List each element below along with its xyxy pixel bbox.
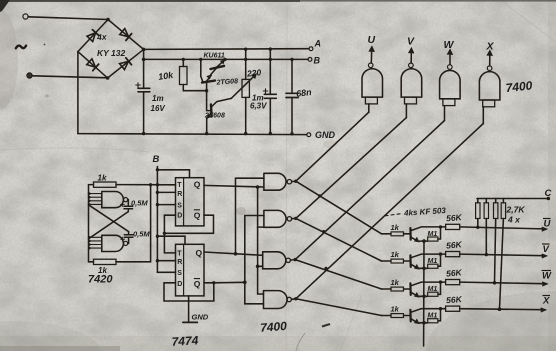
svg-text:2,7K: 2,7K	[506, 205, 526, 215]
capacitor C2 1m 6.3V	[269, 47, 272, 50]
wire B to FF1 top pin	[157, 170, 189, 178]
svg-text:56K: 56K	[446, 239, 463, 250]
svg-text:7420: 7420	[88, 274, 113, 286]
wire AC1 to bridge top	[28, 17, 108, 20]
wire Q2bar to vertical bus	[214, 281, 245, 284]
svg-text:56K: 56K	[446, 212, 463, 223]
svg-text:GND: GND	[192, 313, 209, 322]
flip-flop U2B 7474 box	[176, 244, 205, 296]
wire Q1bar node to T2	[164, 233, 175, 253]
top scan edge	[0, 0, 556, 2]
svg-text:M1: M1	[428, 313, 438, 320]
diagonal G2 out to stage 2	[296, 218, 382, 261]
wire Q2 branch to gate1 top	[236, 178, 264, 254]
GND end circle	[307, 133, 311, 137]
wire Q1 to gate1 bottom	[204, 185, 264, 187]
FF pin letters	[177, 182, 182, 288]
svg-text:X: X	[542, 296, 550, 307]
svg-text:V: V	[407, 36, 415, 48]
bottom-left dark edge	[0, 346, 120, 351]
svg-text:KY 132: KY 132	[97, 48, 125, 58]
wire AC2 to bridge bottom	[32, 76, 107, 78]
dash leader for KF503	[385, 214, 400, 216]
rail A	[144, 48, 309, 51]
common emitter ground line	[423, 241, 425, 346]
wire rail B to Q2 collector	[199, 58, 202, 61]
svg-text:Q: Q	[196, 248, 203, 258]
FF2 ground stub	[188, 296, 190, 323]
wire Q2 to gate3 top	[204, 252, 263, 255]
potentiometer P1 220	[244, 48, 247, 51]
svg-text:T: T	[177, 182, 182, 189]
diagonal G3 out to gate W	[295, 121, 444, 260]
wire 1k top left to gate1 input rail	[89, 185, 94, 193]
resistor R8 2,7K	[500, 199, 504, 310]
svg-text:B: B	[314, 56, 321, 66]
svg-text:D: D	[177, 213, 182, 220]
AC terminal 2	[27, 73, 32, 78]
transistor stage T2	[382, 252, 548, 271]
bus Q2bar vertical to gate2 top	[245, 216, 264, 304]
gate U	[362, 46, 383, 112]
node bridge bottom	[106, 76, 110, 80]
wire 1k bottom right to join line	[116, 185, 151, 262]
diode D3 bottom-left	[86, 58, 98, 70]
svg-text:7474: 7474	[171, 333, 199, 348]
nand gate G3	[263, 252, 286, 269]
svg-text:W: W	[444, 39, 455, 51]
overlines for U V W X bar	[542, 219, 552, 296]
wire Q1bar loop to D1	[164, 215, 213, 233]
bridge rectifier diamond KY132	[78, 20, 144, 79]
svg-text:U: U	[544, 219, 552, 230]
rail B end circle	[308, 58, 312, 62]
resistor R7 2,7K	[495, 199, 496, 283]
wire B to FF2 top pin	[157, 236, 185, 244]
svg-text:M1: M1	[428, 258, 438, 265]
svg-text:0,5M: 0,5M	[133, 230, 150, 239]
resistor R4 1k bottom	[94, 259, 117, 264]
nand gate G4	[264, 291, 288, 309]
wire B to S1	[157, 204, 175, 206]
main filter cap line	[143, 49, 145, 133]
bus Q1 to gate4 top	[258, 266, 264, 294]
wire B to R1	[157, 191, 175, 193]
svg-text:220: 220	[246, 67, 262, 79]
diode D4 bottom-right	[119, 58, 131, 70]
svg-text:68n: 68n	[296, 87, 313, 99]
diode D2 top-right	[119, 28, 131, 40]
svg-text:W: W	[542, 271, 552, 282]
svg-text:D: D	[177, 281, 182, 288]
bus Q1 vertical	[258, 187, 264, 227]
svg-text:4x: 4x	[96, 31, 108, 42]
diode D1 top-left	[87, 30, 99, 42]
wire bridge left vertex down to GND rail	[77, 52, 79, 134]
node B feed	[156, 167, 158, 273]
flip-flop U2A 7474 box	[176, 178, 205, 226]
resistor R3 1k top	[94, 182, 117, 187]
diagonal G1 out to gate U	[296, 112, 369, 181]
transistor stage T1	[382, 224, 548, 243]
svg-text:Q: Q	[194, 210, 201, 220]
diagonal G3 out to stage 3	[295, 260, 381, 289]
nand gate G2	[264, 210, 286, 227]
resistor R5 2,7K	[477, 199, 479, 228]
svg-text:X: X	[486, 41, 495, 53]
wire 1k top right to FF1 T	[116, 184, 176, 186]
transistor Q1 KU611	[211, 66, 225, 69]
stray pen mark	[322, 324, 330, 327]
diagonal G2 out to gate V	[296, 118, 407, 219]
pot wiper arrow	[231, 76, 254, 98]
svg-text:C: C	[545, 188, 552, 199]
svg-text:Q: Q	[194, 180, 201, 190]
svg-text:M1: M1	[428, 231, 438, 238]
AC terminal 1	[23, 14, 28, 19]
transistor stage T3	[382, 280, 549, 299]
wire cross to gate1 inputs	[89, 205, 129, 232]
gate input rail	[88, 193, 90, 262]
svg-text:U: U	[368, 34, 376, 46]
wire Q2bar loop to D2	[164, 283, 214, 301]
svg-text:R: R	[177, 191, 182, 198]
svg-text:A: A	[314, 39, 322, 49]
svg-text:4 x: 4 x	[507, 215, 521, 225]
svg-text:0,5M: 0,5M	[131, 199, 148, 208]
wire Q2 base down to node	[206, 83, 208, 100]
svg-text:1m: 1m	[152, 94, 164, 103]
diagonal G1 out to stage 1	[296, 181, 382, 234]
svg-text:T: T	[177, 250, 182, 257]
wire B to S2	[157, 271, 175, 273]
svg-text:R: R	[177, 259, 182, 266]
corner and edge shading	[426, 291, 556, 351]
capacitor C3 68n	[290, 58, 293, 61]
svg-text:56K: 56K	[446, 267, 463, 278]
rail C	[477, 198, 548, 200]
transistor Q2 2T608 upper	[202, 81, 215, 83]
svg-text:S: S	[177, 202, 182, 209]
wire cross to gate2 inputs	[89, 212, 129, 239]
svg-text:2T608: 2T608	[204, 113, 225, 120]
svg-text:7400: 7400	[505, 78, 533, 95]
resistor R6 2,7K	[485, 199, 487, 255]
svg-text:1k: 1k	[391, 223, 400, 232]
gate X	[479, 50, 500, 124]
nand gate G1	[264, 173, 286, 190]
svg-text:KU611: KU611	[204, 53, 225, 60]
svg-text:56K: 56K	[446, 294, 463, 305]
rail A end circle	[309, 47, 313, 51]
diagonal G4 out to stage 4	[296, 299, 382, 316]
diagonal G4 out to gate X	[296, 124, 484, 299]
node rail B left	[142, 58, 146, 62]
capacitor C1 1m 16V	[138, 88, 150, 92]
ground symbol	[183, 321, 197, 323]
gate V	[401, 48, 422, 118]
wire B to R2	[157, 260, 175, 262]
svg-text:7400: 7400	[260, 319, 288, 335]
transistor Q3 2T608 lower	[210, 105, 213, 117]
nand gate G5 7420 top	[102, 192, 124, 208]
rail B	[144, 58, 308, 60]
svg-text:V: V	[543, 244, 550, 255]
node bridge right	[142, 48, 146, 52]
svg-text:1k: 1k	[391, 250, 400, 259]
svg-text:GND: GND	[315, 130, 336, 140]
wire bus to gate2 top	[245, 215, 264, 217]
svg-text:M1: M1	[428, 286, 438, 293]
svg-text:1k: 1k	[98, 174, 107, 183]
bus Q1 to gate3 bottom	[258, 227, 263, 266]
svg-text:6,3V: 6,3V	[250, 102, 267, 111]
node bridge top	[106, 18, 110, 22]
svg-text:B: B	[153, 154, 160, 165]
capacitor C5 0,5M	[124, 232, 133, 244]
resistor R-10k	[182, 58, 185, 61]
transistor stage T4	[382, 306, 547, 325]
ink blobs at wire crossings	[318, 194, 321, 197]
AC ~ symbol	[16, 46, 26, 49]
svg-text:S: S	[177, 270, 182, 277]
capacitor C4 0,5M	[124, 200, 133, 212]
nand gate G6 7420 bottom	[102, 235, 124, 251]
svg-text:16V: 16V	[151, 104, 166, 113]
top-left corner blob	[0, 0, 10, 12]
speck	[44, 44, 46, 46]
svg-text:1k: 1k	[391, 305, 400, 314]
svg-text:1k: 1k	[391, 278, 400, 287]
svg-text:Q: Q	[194, 279, 201, 289]
GND rail	[78, 134, 307, 135]
gate W	[440, 49, 461, 121]
